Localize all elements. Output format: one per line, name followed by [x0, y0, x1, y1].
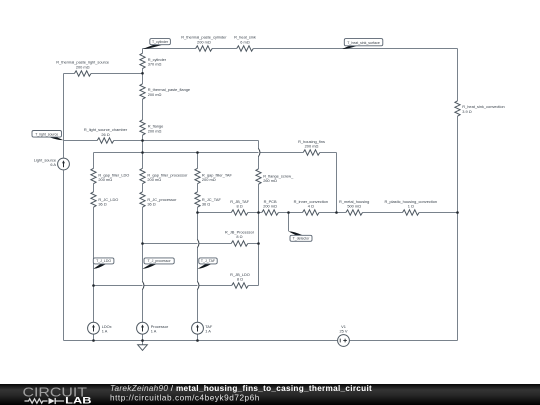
- node junction PCB-node vertical x mid rail: [257, 211, 260, 214]
- svg-text:8 Ω: 8 Ω: [237, 277, 243, 282]
- svg-text:200 mΩ: 200 mΩ: [305, 144, 319, 149]
- current source LDOx: [88, 322, 100, 334]
- svg-text:200 mΩ: 200 mΩ: [148, 128, 162, 133]
- node junction mid rail x right rail: [456, 211, 459, 214]
- resistor R_JB_Processor: [231, 241, 248, 246]
- current source Light_source: [58, 158, 70, 170]
- wire TAF source to bottom rail: [197, 334, 199, 340]
- wire processor branch upper lead: [142, 153, 144, 169]
- svg-text:26 Ω: 26 Ω: [101, 132, 109, 137]
- resistor R_heat_sink_convection: [455, 101, 460, 116]
- wire hop TAF branch over R_JB_LDO line: [198, 282, 199, 290]
- svg-text:8 Ω: 8 Ω: [237, 204, 243, 209]
- svg-text:1 Ω: 1 Ω: [408, 204, 414, 209]
- svg-text:T_heat_sink_surface: T_heat_sink_surface: [347, 41, 380, 45]
- resistor R_metal_housing: [346, 210, 363, 215]
- wire LDO branch lower: [93, 207, 95, 322]
- wire LDO branch between resistors: [93, 184, 95, 192]
- svg-text:T_J_TAF: T_J_TAF: [201, 259, 215, 263]
- node junction T_detector stub: [287, 211, 290, 214]
- wire flange-screw vertical upper above rail B crossing: [258, 141, 260, 150]
- wire processor branch between resistors: [142, 184, 144, 192]
- flag T_J_LDO: [93, 261, 106, 269]
- flag T_light_source: [49, 134, 64, 140]
- resistor R_flange_screw_: [256, 169, 261, 184]
- wire bottom rail left of V1: [64, 340, 338, 342]
- resistor R_light_source_chamber: [97, 138, 114, 143]
- resistor R_thermal_paste_light_source: [74, 71, 91, 76]
- wire flange-screw / PCB-node vertical lower: [258, 184, 260, 285]
- svg-text:T_J_processor: T_J_processor: [148, 259, 172, 263]
- wire top rail left segment: [143, 48, 196, 50]
- wire top rail right segment: [253, 48, 457, 50]
- svg-text:36 Ω: 36 Ω: [202, 201, 210, 206]
- svg-text:T_cylinder: T_cylinder: [152, 40, 169, 44]
- node junction rail A x cylinder column: [141, 139, 144, 142]
- wire TAF branch between resistors: [197, 184, 199, 192]
- svg-text:200 mΩ: 200 mΩ: [98, 177, 112, 182]
- wire right rail lower: [457, 116, 459, 340]
- svg-text:200 mΩ: 200 mΩ: [148, 92, 162, 97]
- resistor R_flange: [140, 120, 145, 135]
- svg-text:6 A: 6 A: [50, 162, 56, 167]
- svg-text:1 A: 1 A: [205, 329, 211, 334]
- CircuitLab logo resistor symbol: [25, 399, 48, 403]
- wire left column between y73 and rail A: [63, 74, 65, 141]
- resistor R_JB_TAF: [231, 210, 248, 215]
- svg-text:36 Ω: 36 Ω: [98, 201, 106, 206]
- svg-text:200 mΩ: 200 mΩ: [147, 177, 161, 182]
- svg-text:200 mΩ: 200 mΩ: [197, 40, 211, 45]
- node junction LDO branch x R_JB_LDO: [92, 284, 95, 287]
- wire TAF branch lower part 3: [197, 289, 199, 322]
- current source Processor: [137, 322, 149, 334]
- svg-text:200 mΩ: 200 mΩ: [202, 177, 216, 182]
- svg-text:36 Ω: 36 Ω: [147, 201, 155, 206]
- svg-text:4 Ω: 4 Ω: [308, 204, 314, 209]
- svg-text:T_detector: T_detector: [293, 237, 311, 241]
- wire hop rail B over flange-screw vertical: [259, 149, 260, 157]
- wire mid rail between R_metal_housing and R_plastic_housing_convection: [363, 212, 403, 214]
- flag T_detector: [288, 231, 303, 238]
- wire TAF branch lower part 2: [197, 247, 199, 282]
- wire between R_cylinder and R_thermal_paste_flange: [142, 69, 144, 84]
- resistor R_gap_filler_TAF: [195, 168, 200, 183]
- flag T_J_TAF: [198, 261, 212, 269]
- svg-text:6 mΩ: 6 mΩ: [240, 40, 249, 45]
- svg-text:http://circuitlab.com/c4beyk9d: http://circuitlab.com/c4beyk9d72p6h: [110, 394, 260, 403]
- current source TAF: [192, 322, 204, 334]
- wire TAF branch lower part 1: [197, 207, 199, 240]
- svg-text:1 A: 1 A: [102, 329, 108, 334]
- wire LDO source to bottom rail: [93, 334, 95, 340]
- resistor R_cylinder: [140, 53, 145, 68]
- wire between R_thermal_paste_flange and R_flange: [142, 99, 144, 120]
- wire hop processor branch over R_JB_LDO line: [143, 282, 144, 290]
- node junction R_cylinder / R_thermal_paste_light_source: [141, 72, 144, 75]
- svg-text:8 Ω: 8 Ω: [236, 234, 242, 239]
- wire rail B: [94, 152, 304, 154]
- wire mid rail between R_inner_convection and R_metal_housing: [319, 212, 346, 214]
- wire cylinder column top lead: [142, 49, 144, 54]
- wire mid rail between R_PCB and R_inner_convection: [278, 212, 302, 214]
- resistor R_gap_filler_processor: [140, 168, 145, 183]
- wire R_JB_Processor left lead: [143, 243, 232, 245]
- wire flange-screw vertical upper below rail B crossing: [258, 156, 260, 169]
- wire rail A left segment: [64, 140, 98, 142]
- node junction TAF branch x mid rail: [196, 211, 199, 214]
- resistor R_JB_LDO: [232, 283, 249, 288]
- wire R_JB_LDO left lead: [94, 285, 232, 287]
- wire bottom rail right of V1: [350, 340, 458, 342]
- wire R_flange bottom to rail B: [142, 135, 144, 152]
- svg-text:370 mΩ: 370 mΩ: [148, 62, 162, 67]
- wire R_JB_Processor right lead: [248, 243, 259, 245]
- voltage source V1: [338, 335, 350, 347]
- node junction PCB-node vertical x R_JB_Processor: [257, 242, 260, 245]
- wire rail B right lead to corner: [320, 152, 337, 154]
- wire top rail between R_thermal_paste_cylinder and R_heat_sink: [212, 48, 237, 50]
- wire processor branch lower below R_JB_LDO crossing: [142, 289, 144, 322]
- wire housing-fins vertical: [336, 153, 338, 213]
- wire mid rail lead to R_JB_TAF: [198, 212, 232, 214]
- resistor R_heat_sink: [237, 46, 254, 51]
- wire right rail upper: [457, 49, 459, 101]
- resistor R_gap_filler_LDO: [91, 168, 96, 183]
- wire thermal-paste-light-source left lead: [64, 73, 75, 75]
- resistor R_PCB: [262, 210, 279, 215]
- svg-text:3.9 Ω: 3.9 Ω: [462, 109, 471, 114]
- wire R_JB_LDO right lead: [248, 285, 258, 287]
- node junction rail B x TAF branch: [196, 151, 199, 154]
- flag T_J_processor: [143, 261, 158, 269]
- wire light source column upper: [63, 141, 65, 158]
- resistor R_housing_fins: [303, 150, 320, 155]
- resistor R_plastic_housing_convection: [403, 210, 420, 215]
- wire rail A right segment: [114, 140, 259, 142]
- node junction TAF branch x bottom rail: [196, 339, 199, 342]
- wire T_detector stub: [288, 213, 290, 232]
- flag T_cylinder: [143, 42, 163, 49]
- wire processor source to bottom rail: [142, 334, 144, 340]
- svg-text:T_light_source: T_light_source: [35, 132, 58, 136]
- svg-text:25 V: 25 V: [339, 328, 347, 333]
- svg-text:200 mΩ: 200 mΩ: [76, 65, 90, 70]
- node junction housing-fins vertical x mid rail: [335, 211, 338, 214]
- flag T_heat_sink_surface: [342, 43, 357, 49]
- resistor R_thermal_paste_flange: [140, 84, 145, 99]
- svg-text:1 A: 1 A: [151, 329, 157, 334]
- ground: [138, 341, 148, 351]
- svg-text:T_J_LDO: T_J_LDO: [96, 259, 111, 263]
- svg-text:LAB: LAB: [65, 394, 92, 405]
- svg-text:260 mΩ: 260 mΩ: [263, 178, 277, 183]
- wire mid rail between R_JB_TAF and R_PCB: [248, 212, 262, 214]
- resistor R_thermal_paste_cylinder: [196, 46, 213, 51]
- node junction processor branch x bottom rail: [141, 339, 144, 342]
- svg-text:TarekZeinah90 / metal_housing_: TarekZeinah90 / metal_housing_fins_to_ca…: [110, 384, 372, 393]
- resistor R_inner_convection: [303, 210, 320, 215]
- wire mid rail right lead: [419, 212, 457, 214]
- wire hop TAF branch over R_JB_Processor line: [198, 240, 199, 248]
- resistor R_JC_LDO: [91, 192, 96, 207]
- svg-text:500 mΩ: 500 mΩ: [347, 204, 361, 209]
- resistor R_JC_processor: [140, 192, 145, 207]
- CircuitLab logo diode symbol: [49, 398, 55, 404]
- wire thermal-paste-light-source right lead: [91, 73, 143, 75]
- node junction rail B x processor branch: [141, 151, 144, 154]
- node junction LDO branch x bottom rail: [92, 339, 95, 342]
- wire light source column lower: [63, 170, 65, 340]
- wire processor branch lower upper part: [142, 207, 144, 282]
- wire LDO branch upper lead: [93, 153, 95, 169]
- node junction processor branch x R_JB_Processor: [141, 242, 144, 245]
- resistor R_JC_TAF: [195, 192, 200, 207]
- svg-text:200 mΩ: 200 mΩ: [263, 204, 277, 209]
- wire TAF branch upper lead: [197, 153, 199, 169]
